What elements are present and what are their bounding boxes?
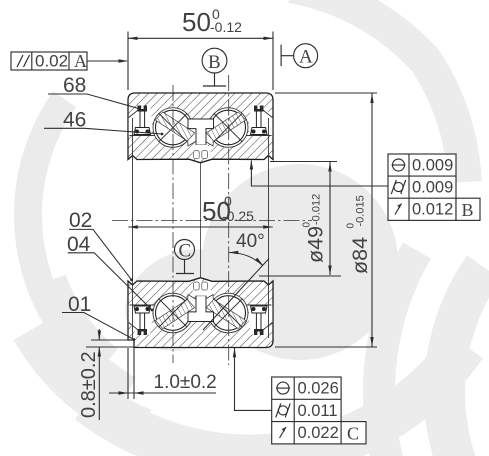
svg-text:0.009: 0.009 xyxy=(412,157,453,175)
svg-text:0.02: 0.02 xyxy=(35,52,68,71)
svg-text:B: B xyxy=(208,52,221,73)
svg-text:01: 01 xyxy=(68,293,91,316)
svg-text:40°: 40° xyxy=(236,231,265,252)
svg-text:B: B xyxy=(462,200,474,220)
svg-text:0.022: 0.022 xyxy=(298,424,339,442)
svg-text:04: 04 xyxy=(67,233,91,256)
svg-text:-0.012: -0.012 xyxy=(311,194,323,225)
svg-text:0.026: 0.026 xyxy=(298,380,339,398)
svg-text:0.011: 0.011 xyxy=(298,402,338,420)
svg-text:0: 0 xyxy=(224,193,232,209)
svg-text:A: A xyxy=(74,51,87,71)
svg-text:-0.12: -0.12 xyxy=(210,19,242,35)
svg-text:-0.015: -0.015 xyxy=(355,195,367,226)
svg-text:ø49: ø49 xyxy=(304,226,328,263)
svg-text:C: C xyxy=(179,241,192,262)
svg-text:0.012: 0.012 xyxy=(412,201,453,219)
svg-text:C: C xyxy=(347,424,359,444)
svg-text:1.0±0.2: 1.0±0.2 xyxy=(154,372,217,393)
svg-text:0.009: 0.009 xyxy=(412,179,453,197)
svg-text:50: 50 xyxy=(182,7,211,37)
svg-text:0.8±0.2: 0.8±0.2 xyxy=(78,351,100,418)
svg-text:68: 68 xyxy=(63,74,86,97)
svg-text:ø84: ø84 xyxy=(348,237,372,274)
svg-text:46: 46 xyxy=(63,109,86,132)
svg-text:A: A xyxy=(299,47,313,68)
svg-text:02: 02 xyxy=(69,209,92,232)
svg-text:-0.25: -0.25 xyxy=(222,208,254,224)
